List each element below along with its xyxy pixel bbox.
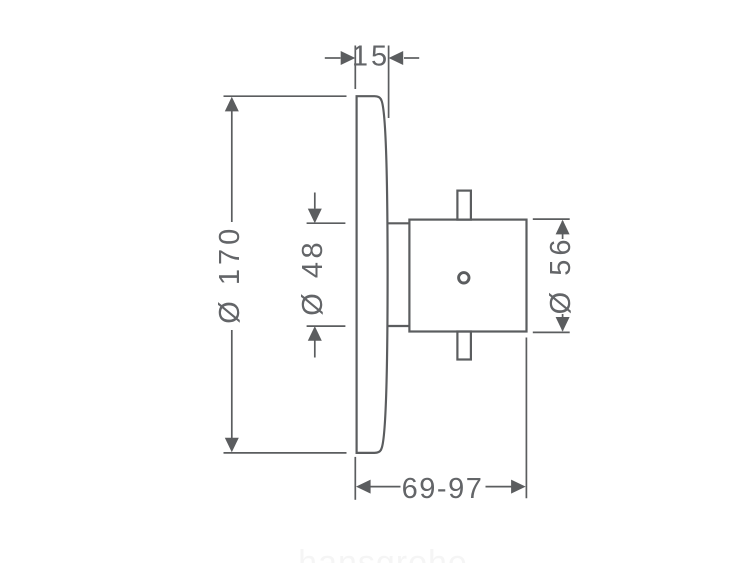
dim 15: left tail	[325, 57, 341, 59]
dim Ø170: bottom arrowhead	[225, 438, 239, 453]
dim 69-97: right arrowhead	[511, 480, 526, 494]
collar top line (Ø48 sleeve)	[387, 222, 409, 224]
dim Ø170: bottom extension line	[224, 452, 347, 454]
svg-text:15: 15	[352, 41, 390, 73]
handle bottom tab	[457, 332, 471, 360]
dim Ø170: top arrowhead	[225, 97, 239, 112]
dim Ø56: dimension line lower segment	[562, 314, 564, 331]
dim Ø48: top extension line	[307, 222, 346, 224]
dim Ø48: top tail	[314, 193, 316, 209]
dim 15: right extension line	[388, 46, 390, 119]
collar bottom line (Ø48 sleeve)	[387, 325, 409, 327]
dim 69-97: right tail	[486, 486, 513, 488]
svg-text:Ø 56: Ø 56	[545, 235, 577, 314]
svg-text:hansgrohe: hansgrohe	[298, 544, 468, 563]
escutcheon plate (side profile, convex back)	[357, 96, 388, 453]
dim 69-97: right extension line	[525, 338, 527, 499]
dim 69-97: left tail	[370, 486, 401, 488]
dim 15: left extension line	[354, 46, 356, 90]
center screw dot	[459, 273, 469, 283]
svg-text:Ø 48: Ø 48	[297, 239, 329, 316]
dim Ø56: dimension line upper segment	[562, 221, 564, 239]
dim Ø48: bottom tail	[314, 341, 316, 358]
dim Ø56: top extension line	[533, 218, 570, 220]
dim Ø170: top extension line	[224, 95, 347, 97]
handle body (Ø56 knob, side view)	[409, 220, 526, 332]
svg-text:69-97: 69-97	[402, 473, 484, 505]
dim Ø56: top arrowhead	[556, 220, 570, 235]
handle top tab	[457, 191, 471, 220]
dim 15: left arrowhead	[341, 51, 356, 65]
dim Ø48: bottom arrowhead	[308, 326, 322, 341]
dim Ø48: bottom extension line	[307, 325, 346, 327]
dim Ø170: dimension line upper segment	[231, 110, 233, 222]
svg-text:Ø 170: Ø 170	[214, 225, 246, 324]
dim Ø56: bottom extension line	[533, 331, 570, 333]
dim 69-97: left arrowhead	[356, 480, 371, 494]
dim 15: right tail	[404, 57, 419, 59]
dim Ø56: bottom arrowhead	[556, 317, 570, 332]
dim Ø170: dimension line lower segment	[231, 330, 233, 440]
dim 69-97: left extension line	[354, 457, 356, 500]
dim 15: right arrowhead	[389, 51, 404, 65]
dim Ø48: top arrowhead	[308, 209, 322, 224]
